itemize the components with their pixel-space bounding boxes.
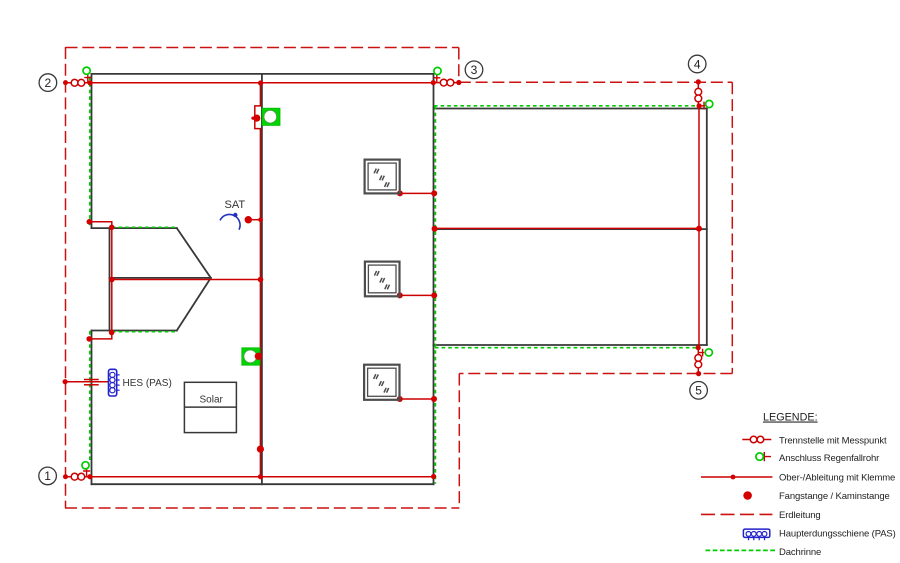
wire trennstelle 1 [66, 476, 91, 478]
extension bottom edge [434, 344, 707, 346]
wire trennstelle 2 [66, 82, 91, 84]
vent bottom on ridge [242, 348, 260, 365]
wire extension right conductor [698, 106, 700, 348]
legend trennstelle symbol [742, 436, 771, 443]
node dot chimney 2 corner [397, 292, 403, 298]
trennstelle node 5 [695, 355, 702, 362]
svg-text:Fangstange / Kaminstange: Fangstange / Kaminstange [779, 491, 890, 502]
wire trennstelle 4 [697, 82, 699, 106]
gutter extension bottom [435, 347, 699, 349]
node dot chimney 1 wall [431, 190, 437, 196]
gutter gable eave bottom [112, 331, 177, 333]
svg-text:LEGENDE:: LEGENDE: [763, 412, 818, 424]
node dot wall top-right [431, 80, 436, 85]
wire eave conductor bottom [90, 476, 434, 478]
svg-text:Anschluss Regenfallrohr: Anschluss Regenfallrohr [779, 453, 879, 464]
svg-text:5: 5 [695, 384, 702, 398]
gable eave bottom [92, 330, 177, 332]
legend dachrinne symbol [706, 549, 776, 551]
svg-text:SAT: SAT [225, 199, 246, 211]
legend ableitung symbol [701, 475, 772, 480]
extension top edge [434, 108, 707, 110]
wall left edge upper [91, 74, 93, 228]
node dot gable eave bottom crossing [109, 330, 115, 336]
node 5 [690, 382, 708, 400]
wire gable loop [89, 222, 112, 339]
svg-text:4: 4 [694, 57, 701, 71]
regenfallrohr bottom-left tee [83, 468, 90, 477]
wire Erdleitung right [731, 82, 733, 373]
gable ridge line [110, 277, 211, 279]
node dot extension ridge left [432, 226, 438, 232]
legend PAS symbol [743, 529, 769, 540]
legend regenfallrohr symbol [756, 452, 771, 461]
gable eave top [92, 227, 177, 229]
wire Erdleitung bottom [65, 507, 459, 509]
node dot erdleitung at HES [63, 379, 68, 384]
wire gable ridge conductor [112, 279, 261, 281]
node dot erdleitung at 5 [696, 371, 701, 376]
wire Erdleitung mid vertical [458, 374, 460, 509]
extension right edge [706, 109, 708, 346]
svg-text:Dachrinne: Dachrinne [779, 547, 821, 558]
node 1 [39, 467, 57, 485]
HES busbar clamps [110, 372, 120, 393]
svg-text:Ober-/Ableitung mit Klemme: Ober-/Ableitung mit Klemme [779, 472, 895, 483]
wire Erdleitung mid horizontal [459, 373, 732, 375]
HES busbar box [109, 369, 117, 396]
regenfallrohr node5 circle [705, 349, 712, 356]
regenfallrohr node5 tee [699, 349, 705, 357]
solar box outline [184, 382, 236, 432]
node dot chimney 3 corner [397, 396, 403, 402]
wire trennstelle 5 [697, 348, 699, 374]
gutter right wall [434, 106, 436, 484]
svg-text:1: 1 [44, 469, 51, 483]
chimney 2 hatch marks [374, 271, 389, 290]
chimney 2 [365, 262, 400, 297]
legend erdleitung symbol [701, 513, 772, 515]
SAT dish feed dot [233, 213, 237, 217]
regenfallrohr node4 circle [706, 100, 713, 107]
hip line upper [177, 228, 211, 278]
svg-text:2: 2 [45, 76, 52, 90]
node dot wall bottom-left [87, 474, 92, 479]
wire trennstelle 3 [433, 82, 458, 84]
vent top on ridge [262, 108, 280, 125]
chimney 1 hatch marks [374, 169, 389, 188]
solar box divider [184, 406, 236, 408]
fangstange bottom vent [255, 353, 262, 360]
regenfallrohr top-right circle [434, 67, 441, 74]
chimney 3 hatch marks [374, 374, 389, 393]
node dot extension corner 4 [697, 103, 702, 108]
node dot erdleitung at 3 [456, 80, 461, 85]
regenfallrohr top-right tee [433, 75, 440, 83]
gutter left wall lower [89, 331, 91, 463]
node dot chimney 1 corner [397, 190, 403, 196]
trennstelle node 1 [71, 473, 78, 480]
wire break mark lower [84, 384, 99, 386]
wall left edge lower [91, 331, 93, 485]
wire SAT connection [250, 219, 260, 221]
node dot ridge-gable junction [258, 277, 264, 283]
node dot ridge SAT junction [258, 217, 263, 222]
regenfallrohr node4 tee [699, 102, 705, 110]
wall right edge [433, 74, 435, 484]
fangstange top vent tail [251, 117, 257, 120]
node dot chimney 3 wall [431, 396, 437, 402]
wire extension ridge conductor [434, 227, 699, 229]
trennstelle node 4 [695, 88, 702, 95]
node dot gable bottom wall [86, 336, 92, 342]
gutter left wall upper [89, 77, 91, 228]
svg-text:Erdleitung: Erdleitung [779, 510, 821, 521]
node dot extension ridge right [696, 226, 702, 232]
node dot erdleitung at 2 [63, 80, 68, 85]
chimney 1 [365, 160, 400, 194]
fangstange top vent [253, 115, 260, 122]
wire Erdleitung top [66, 47, 459, 49]
regenfallrohr top-left tee [84, 75, 91, 83]
node dot chimney 2 wall [431, 292, 437, 298]
wire chimney 2 connection [400, 294, 435, 296]
fangstange SAT [245, 216, 252, 223]
node dot ridge bottom [258, 474, 263, 479]
node dot gable top wall [87, 219, 93, 225]
svg-text:Solar: Solar [200, 394, 224, 405]
wire Erdleitung upper right [459, 81, 733, 83]
fangstange ridge lower [257, 446, 264, 453]
recessed wall [109, 228, 111, 330]
wall top edge [92, 73, 434, 75]
node 2 [39, 74, 57, 92]
gutter gable eave top [112, 226, 177, 228]
chimney 3 [364, 365, 399, 400]
svg-text:HES (PAS): HES (PAS) [123, 378, 172, 389]
trennstelle node 3 [440, 79, 447, 86]
wire eave conductor top [90, 82, 433, 84]
SAT dish arc [220, 214, 240, 229]
wire break mark upper [84, 379, 99, 381]
node dot gable eave top crossing [109, 225, 115, 231]
svg-text:3: 3 [471, 63, 478, 77]
wire chimney 1 connection [400, 192, 435, 194]
extension ridge line [434, 228, 707, 230]
regenfallrohr top-left circle [83, 67, 90, 74]
node dot erdleitung at 4 [696, 79, 701, 84]
main ridge line [261, 74, 263, 484]
svg-text:Trennstelle mit Messpunkt: Trennstelle mit Messpunkt [779, 435, 887, 446]
wire main ridge conductor with detour [255, 83, 261, 477]
node dot extension corner 5 [696, 345, 701, 350]
node dot bottom right of left building [431, 474, 436, 479]
node dot ridge top [258, 80, 263, 85]
regenfallrohr bottom-left circle [82, 462, 89, 469]
node 3 [465, 61, 483, 79]
node dot wall top-left [88, 80, 93, 85]
hip line lower [177, 278, 211, 331]
node 4 [688, 55, 706, 73]
trennstelle node 2 [71, 79, 78, 86]
wire HES connection [65, 381, 108, 383]
gutter extension top [434, 105, 700, 107]
wire chimney 3 connection [400, 398, 434, 400]
wire Erdleitung step at node 3 [458, 48, 460, 83]
wire Erdleitung left [65, 47, 67, 508]
legend fangstange symbol [743, 491, 752, 500]
node dot gable ridge left [109, 277, 115, 283]
wall bottom edge [92, 483, 434, 485]
svg-text:Haupterdungsschiene (PAS): Haupterdungsschiene (PAS) [779, 529, 896, 540]
node dot erdleitung at 1 [63, 474, 68, 479]
